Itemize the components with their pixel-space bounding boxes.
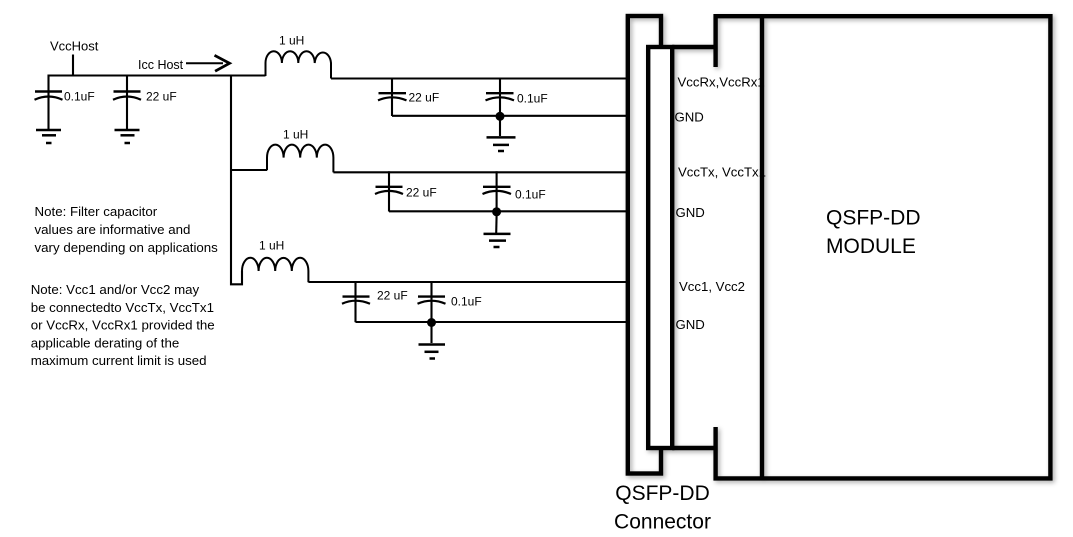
QSFP-DD connector blade bbox=[648, 47, 715, 448]
QSFP-DD module outline bbox=[716, 16, 1051, 478]
svg-text:vary depending on applications: vary depending on applications bbox=[35, 240, 219, 255]
capacitor C7 22uF rail3 bbox=[342, 281, 370, 322]
wire rail3 top to connector bbox=[308, 281, 628, 283]
inductor L3 1uH bbox=[242, 258, 308, 282]
svg-text:VccHost: VccHost bbox=[50, 39, 99, 54]
svg-text:GND: GND bbox=[676, 205, 705, 220]
label QSFP-DD MODULE bbox=[826, 207, 921, 259]
svg-text:Note: Filter capacitor: Note: Filter capacitor bbox=[35, 204, 158, 219]
ground GND C1 bbox=[36, 130, 61, 143]
wire VccHost stub bbox=[72, 55, 74, 77]
wire main rail from VccHost node bbox=[48, 74, 266, 76]
svg-text:GND: GND bbox=[675, 109, 704, 124]
inductor L1 1uH bbox=[266, 51, 332, 78]
svg-text:0.1uF: 0.1uF bbox=[451, 295, 482, 309]
svg-text:22 uF: 22 uF bbox=[146, 90, 177, 104]
wire rail2 input from bus bbox=[231, 169, 267, 171]
capacitor C4 0.1uF rail1 bbox=[486, 78, 515, 117]
svg-text:GND: GND bbox=[676, 317, 705, 332]
wire rail1 top to connector bbox=[331, 77, 628, 79]
svg-text:1 uH: 1 uH bbox=[279, 34, 304, 48]
svg-text:0.1uF: 0.1uF bbox=[515, 188, 546, 202]
svg-text:or VccRx, VccRx1 provided the: or VccRx, VccRx1 provided the bbox=[31, 318, 215, 333]
svg-text:Vcc1, Vcc2: Vcc1, Vcc2 bbox=[679, 279, 745, 294]
capacitor C2 22uF bbox=[113, 75, 141, 130]
note 1 bbox=[35, 204, 219, 255]
svg-text:maximum current limit is used: maximum current limit is used bbox=[31, 353, 207, 368]
junction node rail2 bbox=[492, 207, 501, 216]
wire ground stem rail3 bbox=[430, 326, 432, 343]
ground GND C2 bbox=[115, 130, 140, 143]
svg-text:be connectedto VccTx, VccTx1: be connectedto VccTx, VccTx1 bbox=[31, 300, 214, 315]
svg-text:QSFP-DD: QSFP-DD bbox=[826, 207, 921, 230]
wire rail2 top to connector bbox=[333, 171, 628, 173]
QSFP-DD connector outer shell bbox=[628, 16, 661, 474]
svg-text:applicable derating of the: applicable derating of the bbox=[31, 335, 180, 350]
wire rail3 return bbox=[356, 321, 629, 323]
inductor L2 1uH bbox=[267, 145, 333, 173]
svg-text:Note: Vcc1 and/or Vcc2 may: Note: Vcc1 and/or Vcc2 may bbox=[31, 282, 200, 297]
wire vertical bus with hook to L3 bbox=[231, 75, 242, 285]
svg-text:VccTx, VccTx1: VccTx, VccTx1 bbox=[678, 164, 766, 179]
svg-text:22 uF: 22 uF bbox=[377, 289, 408, 303]
wire rail2 return bbox=[389, 210, 628, 212]
svg-text:QSFP-DD: QSFP-DD bbox=[615, 482, 710, 505]
wire ground stem rail1 bbox=[499, 120, 501, 137]
svg-text:22 uF: 22 uF bbox=[406, 186, 437, 200]
ground GND rail3 bbox=[419, 345, 446, 359]
label QSFP-DD Connector bbox=[614, 482, 711, 534]
svg-text:1 uH: 1 uH bbox=[259, 239, 284, 253]
svg-text:1 uH: 1 uH bbox=[283, 128, 308, 142]
note 2 bbox=[31, 282, 215, 368]
svg-text:values are informative and: values are informative and bbox=[35, 222, 191, 237]
svg-text:MODULE: MODULE bbox=[826, 235, 916, 258]
capacitor C3 22uF rail1 bbox=[378, 78, 407, 117]
QSFP-DD module left edge bbox=[760, 14, 764, 480]
svg-text:Icc Host: Icc Host bbox=[138, 58, 184, 72]
junction node rail3 bbox=[427, 318, 436, 327]
svg-text:0.1uF: 0.1uF bbox=[517, 92, 548, 106]
svg-text:VccRx,VccRx1: VccRx,VccRx1 bbox=[678, 74, 765, 89]
capacitor C5 22uF rail2 bbox=[375, 171, 403, 211]
capacitor C8 0.1uF rail3 bbox=[418, 281, 446, 322]
junction node rail1 bbox=[496, 112, 505, 121]
svg-text:Connector: Connector bbox=[614, 511, 711, 534]
ground GND rail2 bbox=[484, 234, 511, 247]
capacitor C6 0.1uF rail2 bbox=[483, 171, 512, 211]
Icc Host arrow bbox=[186, 55, 230, 71]
wire ground stem rail2 bbox=[495, 216, 497, 234]
wire rail1 return bbox=[392, 115, 628, 117]
svg-text:22 uF: 22 uF bbox=[409, 91, 440, 105]
capacitor C1 0.1uF bbox=[35, 75, 63, 130]
svg-text:0.1uF: 0.1uF bbox=[64, 90, 95, 104]
ground GND rail1 bbox=[487, 137, 516, 151]
